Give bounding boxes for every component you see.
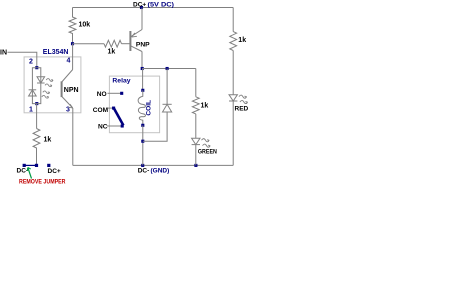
svg-text:2: 2 (29, 59, 33, 66)
node: DC+ junction (140, 6, 143, 9)
wire: diode bottom lead to coil return (143, 112, 167, 141)
svg-text:1k: 1k (108, 49, 116, 56)
wire: collector horizontal rail (142, 68, 196, 70)
wire: opto pin 1 down (36, 104, 38, 129)
diode: flyback across coil (cathode up) (163, 104, 172, 112)
light arrows from RED LED (239, 95, 248, 104)
resistor 1k (red LED) (230, 32, 237, 51)
wire: DC- ground rail (73, 164, 233, 166)
terminal: resistor bottom (35, 164, 38, 167)
wire: red branch top (232, 8, 234, 32)
transistor: opto NPN phototransistor (62, 70, 73, 109)
wire: NO contact lead (108, 92, 122, 94)
wire: PNP emitter to DC+ rail (141, 8, 143, 30)
wire: IN to opto pin 2 (8, 52, 37, 67)
wire: resistor to red LED (232, 51, 234, 95)
wire: junction to base resistor (73, 43, 105, 45)
wire: PNP collector drop (141, 52, 143, 69)
node: collector junction (141, 67, 144, 70)
wire: opto input LED branches (32, 68, 36, 104)
resistor 1k (PNP base) (104, 40, 122, 47)
svg-text:DC+: DC+ (133, 1, 146, 8)
node: opto LED cathode (pin 1) (35, 102, 38, 105)
svg-text:NC: NC (98, 124, 108, 131)
resistor 1k (input series) (33, 129, 40, 166)
terminal: DC- input (23, 164, 26, 167)
wire: base resistor to PNP base (122, 43, 131, 45)
node: opto LED anode (pin 2) (35, 66, 38, 69)
wire: NC contact lead (107, 125, 122, 127)
wire: green LED to ground rail (195, 145, 197, 166)
svg-text:COIL: COIL (146, 100, 153, 116)
node: flyback diode top junction (166, 67, 169, 70)
svg-text:Relay: Relay (112, 77, 130, 84)
svg-text:RED: RED (235, 105, 249, 112)
svg-text:NO: NO (97, 91, 107, 98)
wire: red LED to ground rail (232, 101, 234, 165)
node: coil-return / diode junction (141, 140, 144, 143)
svg-text:1: 1 (29, 107, 33, 114)
node: NO contact (120, 92, 123, 95)
diode: opto input LED (up, left branch) (29, 90, 37, 96)
wire: COM contact lead (108, 107, 114, 109)
wire: opto pin 3 emitter down to ground rail (72, 108, 74, 165)
label DC- (GND) (138, 167, 170, 174)
svg-text:DC+: DC+ (48, 168, 61, 175)
svg-text:1k: 1k (238, 37, 246, 44)
switch arm: COM to NC (114, 108, 124, 126)
node: coil top terminal (141, 89, 144, 92)
inductor: relay COIL (138, 90, 145, 125)
wire: opto pin 4 to junction (72, 44, 74, 70)
svg-text:GREEN: GREEN (198, 148, 217, 155)
node: coil bottom terminal (141, 124, 144, 127)
svg-text:PNP: PNP (136, 42, 150, 49)
LED: RED indicator (229, 95, 237, 101)
node: NC contact (121, 124, 124, 127)
wire: coil bottom to ground rail (142, 125, 144, 165)
svg-text:DC-: DC- (17, 167, 29, 174)
svg-text:COM: COM (93, 107, 109, 114)
relay box (109, 76, 159, 133)
resistor 1k (green LED) (192, 97, 199, 114)
svg-text:(GND): (GND) (151, 167, 170, 174)
wire: DC+ top power rail (73, 7, 234, 9)
node: COM contact (112, 107, 115, 110)
transistor PNP (2N3906-style) (130, 30, 142, 52)
label DC+ (5V DC) (133, 1, 174, 8)
diode: opto input LED (down, right branch) (37, 77, 45, 83)
svg-text:IN: IN (0, 50, 7, 57)
wire: green branch top (195, 69, 197, 97)
LED: GREEN indicator (192, 138, 200, 144)
node: ground rail / coil return junction (141, 164, 144, 167)
wire: diode top lead (166, 69, 168, 105)
svg-text:REMOVE JUMPER: REMOVE JUMPER (19, 179, 66, 186)
terminal: DC+ input (47, 164, 50, 167)
svg-text:NPN: NPN (64, 87, 79, 94)
node: 10k / base-resistor / opto pin-4 junction (71, 42, 74, 45)
svg-text:1k: 1k (44, 137, 52, 144)
light arrows from input LEDs (42, 79, 53, 99)
node: ground rail / green LED junction (194, 164, 197, 167)
arrow: green pointer at jumper (27, 168, 31, 179)
svg-text:DC-: DC- (138, 167, 150, 174)
svg-text:(5V DC): (5V DC) (148, 1, 175, 8)
svg-text:EL354N: EL354N (43, 49, 69, 56)
optocoupler U1 EL354N package box (24, 57, 81, 113)
svg-text:1k: 1k (201, 102, 209, 109)
svg-text:4: 4 (67, 58, 71, 65)
svg-text:10k: 10k (79, 22, 91, 29)
resistor 10k (69, 8, 76, 44)
wire: collector junction down to coil (142, 69, 144, 91)
light arrows from GREEN LED (202, 139, 211, 148)
wire: jumper between DC- and resistor (24, 164, 36, 166)
wire: resistor to green LED (195, 114, 197, 138)
